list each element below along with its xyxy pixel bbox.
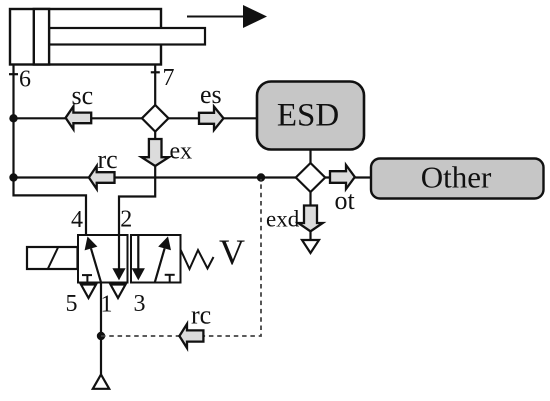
valve flow path up (right box) [155,236,171,282]
wire ex line with jog to valve port 2 [119,132,155,236]
wire pilot line rc (dashed) [101,179,261,336]
svg-text:rc: rc [98,145,118,174]
box Other [371,159,544,199]
svg-text:es: es [200,80,222,109]
svg-text:6: 6 [19,67,31,93]
svg-text:ESD: ESD [277,98,339,134]
exhaust triangle exd [302,240,319,253]
node junction pilot tap on port 1 [97,332,105,340]
svg-text:4: 4 [71,207,83,233]
piston [34,9,49,65]
wire ot line [325,176,372,178]
valve blocked port (right box) [165,275,175,282]
valve flow path 1 to 4 (left box) [85,237,101,283]
piston rod [49,28,205,45]
port 7 tick [151,71,160,73]
valve blocked port 5 (left box) [82,275,92,282]
svg-text:Other: Other [421,160,492,195]
svg-text:1: 1 [101,292,113,318]
exhaust triangle port 3 [111,285,126,299]
wire exd line [309,192,311,240]
node junction rc pilot tap [257,173,265,181]
arrow es (block arrow right) [199,107,224,130]
valve flow path down (right box) [132,235,145,280]
svg-text:2: 2 [120,207,132,233]
arrow ot (block arrow right) [330,165,355,189]
cylinder body (double-acting actuator) [10,9,161,65]
supply triangle [93,375,109,389]
svg-text:5: 5 [66,291,78,317]
svg-text:ot: ot [335,186,356,215]
node junction rc left [9,173,17,181]
shuttle valve diamond D1 [142,105,169,132]
svg-text:sc: sc [72,81,94,110]
wire sc line [14,117,143,119]
svg-text:rc: rc [191,301,211,330]
arrow exd (block arrow down) [298,206,322,232]
port 6 tick [9,73,18,75]
valve V left position box [78,235,128,283]
wire valve port 4 feed [14,195,87,236]
arrow ex (block arrow down) [142,139,169,166]
solenoid actuator [27,247,78,269]
svg-text:7: 7 [163,65,175,91]
arrow rc (block arrow left) [89,166,115,189]
arrow rc pilot (block arrow left) [179,324,203,348]
shuttle valve diamond D2 [296,163,325,192]
spring return [181,250,214,270]
svg-text:exd: exd [266,207,300,232]
wire rc line [14,176,297,178]
wire port 6 vertical [12,65,14,197]
arrow sc (block arrow left) [66,106,92,129]
wire ESD to shuttle D2 [309,150,311,165]
valve V right position box [131,235,181,283]
valve flow path 2 to 3 (left box) [112,235,125,280]
svg-text:ex: ex [170,139,193,165]
svg-text:V: V [219,232,245,272]
motion arrow [187,5,267,28]
node junction at sc line [9,114,17,122]
box ESD [257,82,364,150]
exhaust triangle port 5 [81,285,96,299]
wire es line [169,117,259,119]
wire port 7 vertical [154,65,156,107]
wire valve port 1 supply [100,283,102,376]
svg-text:3: 3 [134,291,146,317]
